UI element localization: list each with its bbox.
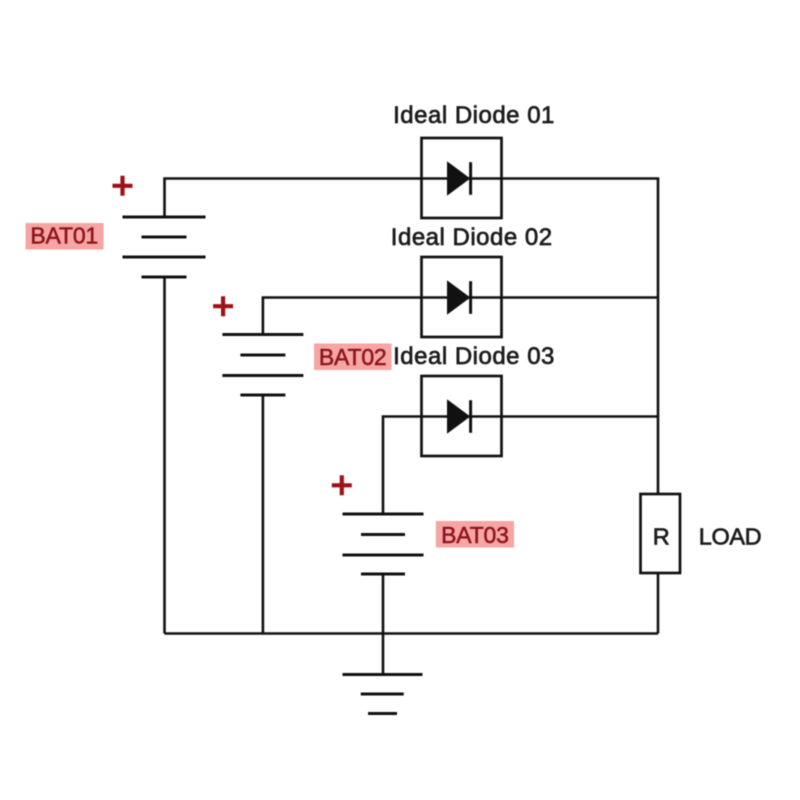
svg-text:Ideal Diode 01: Ideal Diode 01 (393, 102, 555, 129)
svg-text:BAT01: BAT01 (30, 223, 98, 249)
svg-text:R: R (653, 523, 670, 549)
svg-text:Ideal Diode 02: Ideal Diode 02 (391, 224, 553, 251)
svg-text:BAT03: BAT03 (441, 522, 509, 548)
svg-text:LOAD: LOAD (699, 524, 761, 550)
svg-text:BAT02: BAT02 (319, 344, 387, 370)
svg-text:Ideal Diode 03: Ideal Diode 03 (393, 343, 555, 370)
